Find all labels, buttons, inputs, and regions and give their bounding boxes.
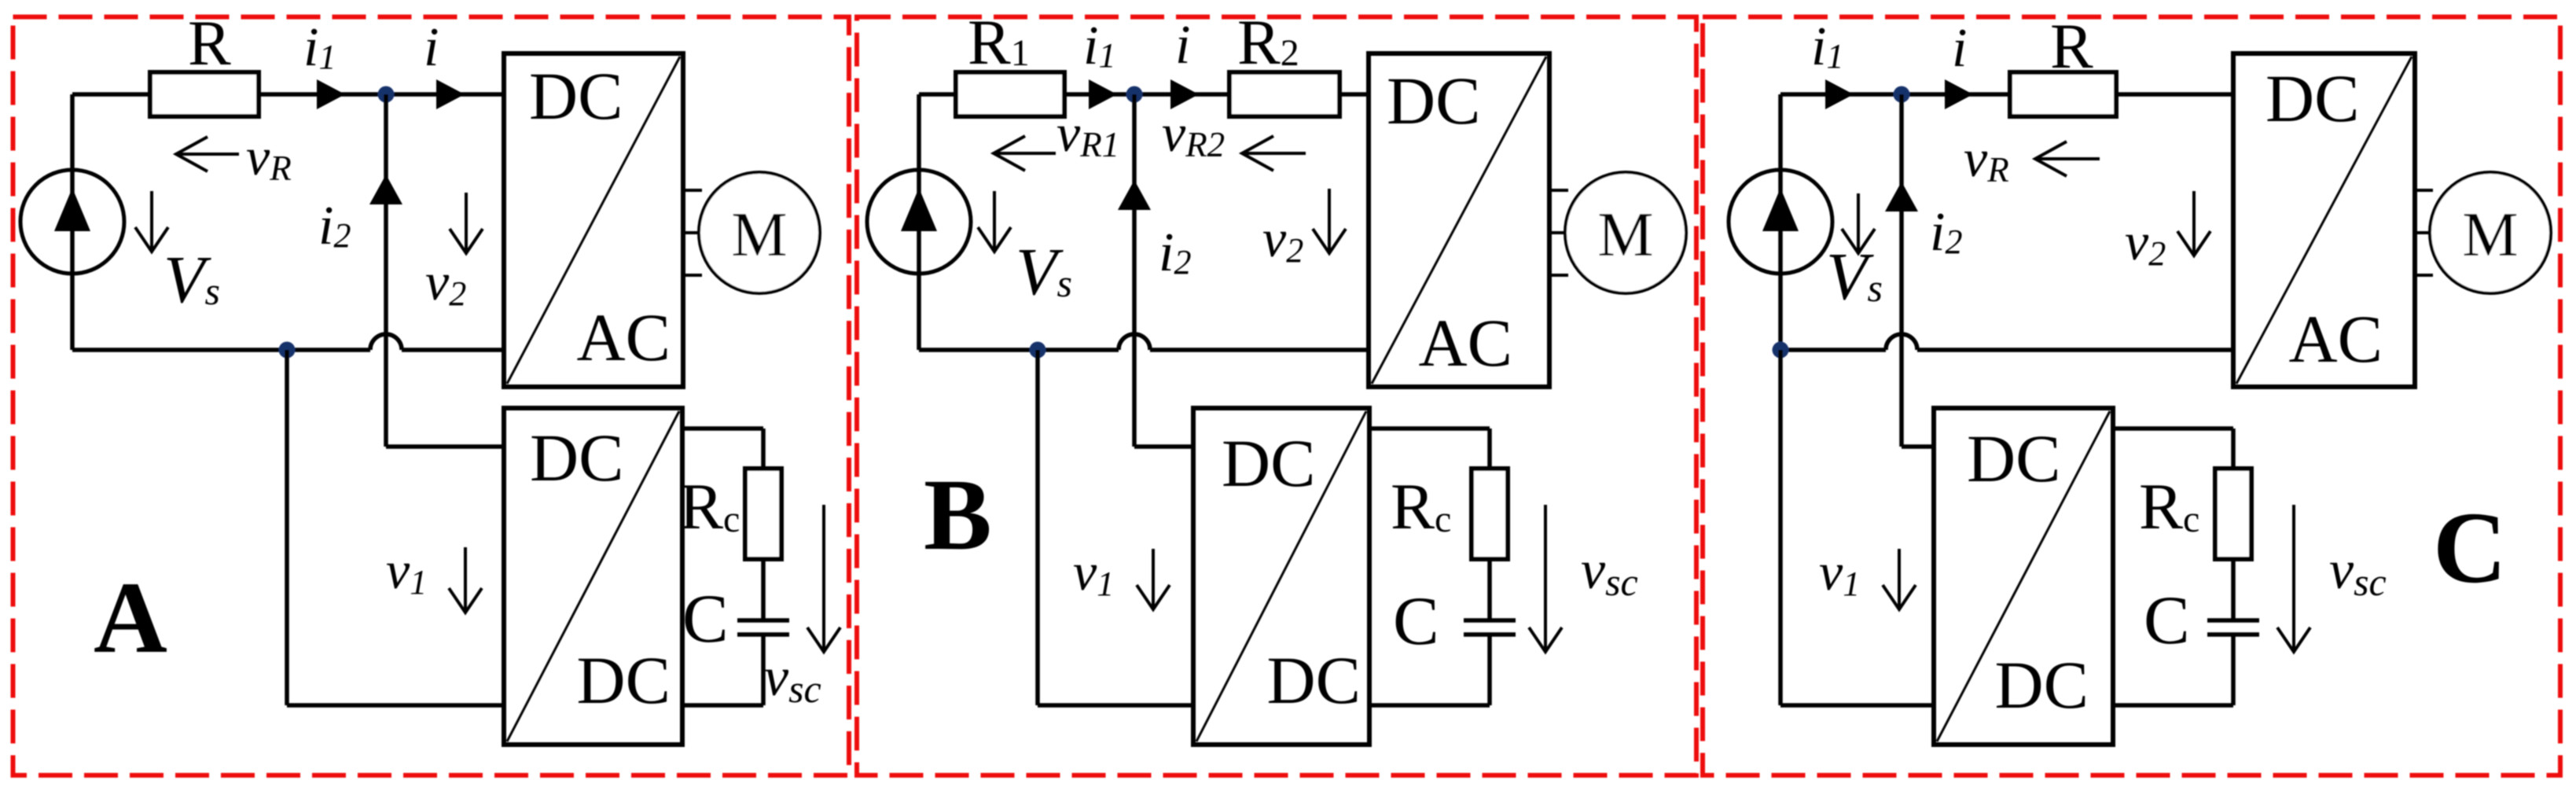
svg-text:vsc: vsc	[764, 647, 821, 711]
svg-text:Vs: Vs	[164, 241, 220, 317]
voltage label v1 (panel B)	[1152, 549, 1155, 609]
svg-text:i2: i2	[1159, 223, 1191, 283]
current arrow i1 (panel C)	[1825, 79, 1854, 109]
motor M (panel C)	[2415, 189, 2433, 192]
svg-text:vR: vR	[246, 127, 292, 188]
source voltage label Vs (panel A)	[150, 191, 153, 252]
wire: link to DC/DC converter (panel B)	[1035, 350, 1040, 705]
voltage label vR2 arrow (panel B)	[1242, 152, 1306, 155]
svg-text:C: C	[2144, 583, 2190, 659]
svg-text:B: B	[924, 458, 992, 572]
capacitor C (panel B)	[1464, 618, 1516, 623]
node junction bottom (panel A)	[279, 342, 296, 359]
node junction top (panel B)	[1126, 86, 1143, 103]
svg-text:M: M	[1597, 201, 1653, 270]
resistor Rc (panel B)	[1472, 469, 1508, 559]
current arrow i1 (panel A)	[317, 79, 345, 109]
svg-text:C: C	[1393, 583, 1439, 660]
resistor Rc (panel A)	[745, 469, 781, 559]
voltage label v2 (panel A)	[465, 193, 468, 253]
resistor R1 (panel B)	[956, 72, 1064, 116]
wire: bottom rail with crossover hop (panel B)	[919, 348, 1119, 352]
svg-text:i1: i1	[1083, 16, 1115, 76]
wire C to bottom (panel C)	[2231, 635, 2236, 705]
svg-text:i: i	[1952, 18, 1967, 79]
svg-text:v2: v2	[1262, 208, 1303, 270]
wire Rc to C (panel C)	[2231, 559, 2236, 620]
svg-text:i2: i2	[318, 196, 351, 256]
svg-text:Rc: Rc	[1391, 470, 1451, 543]
svg-text:DC: DC	[530, 420, 623, 495]
svg-text:vR2: vR2	[1162, 103, 1225, 164]
svg-text:i2: i2	[1930, 202, 1962, 263]
wire: top rail (panel C)	[1780, 92, 2010, 97]
current source Vs (panel C)	[1778, 94, 1783, 350]
resistor Rc (panel C)	[2215, 469, 2251, 559]
svg-text:vR1: vR1	[1056, 103, 1119, 164]
DC/DC converter (panel A)	[504, 408, 682, 745]
wire: i2 branch (panel A)	[384, 94, 388, 447]
svg-text:DC: DC	[1222, 425, 1315, 501]
current arrow i (panel A)	[436, 79, 465, 109]
svg-text:C: C	[682, 581, 729, 657]
svg-text:DC: DC	[1387, 63, 1480, 138]
wire: bottom rail with crossover hop (panel A)	[72, 348, 370, 352]
wire Rc to C (panel B)	[1487, 559, 1492, 620]
svg-text:vsc: vsc	[1581, 540, 1638, 604]
svg-text:AC: AC	[577, 300, 671, 375]
voltage label v2 (panel C)	[2192, 191, 2196, 256]
voltage label v1 (panel A)	[464, 547, 467, 613]
DC/AC converter (panel C)	[2233, 53, 2415, 387]
voltage label vR arrow (panel C)	[2035, 157, 2100, 160]
wire Rc to C (panel A)	[761, 559, 766, 620]
wire: supercap branch (panel C)	[2113, 426, 2233, 431]
current arrow i2 (panel B)	[1118, 180, 1151, 210]
DC/AC converter (panel A)	[504, 53, 683, 387]
wire C to bottom (panel B)	[1487, 635, 1492, 705]
panel A dashed border	[13, 17, 850, 776]
svg-text:i: i	[1175, 15, 1190, 75]
wire C to bottom (panel A)	[761, 635, 766, 705]
svg-text:DC: DC	[577, 642, 671, 718]
voltage label vsc (panel C)	[2292, 505, 2295, 652]
svg-text:C: C	[2433, 491, 2507, 605]
svg-text:Rc: Rc	[2139, 470, 2199, 543]
svg-text:Vs: Vs	[1826, 238, 1883, 314]
current source Vs (panel B)	[917, 94, 921, 350]
current arrow i2 (panel C)	[1885, 182, 1918, 212]
current arrow i (panel C)	[1945, 79, 1973, 109]
wire: supercap branch (panel A)	[682, 426, 763, 431]
svg-text:Vs: Vs	[1016, 234, 1072, 309]
voltage label vsc (panel B)	[1544, 505, 1547, 652]
svg-text:v2: v2	[425, 252, 466, 313]
source voltage label Vs (panel B)	[993, 191, 996, 252]
voltage label v1 (panel C)	[1898, 549, 1901, 609]
svg-text:DC: DC	[2265, 61, 2359, 136]
wire: link to DC/DC converter (panel C)	[1778, 350, 1783, 705]
svg-text:DC: DC	[1267, 642, 1361, 718]
svg-text:R: R	[2050, 10, 2093, 82]
svg-text:DC: DC	[1995, 647, 2089, 723]
svg-text:v1: v1	[386, 540, 427, 602]
wire: i2 branch (panel C)	[1899, 94, 1904, 447]
svg-text:i: i	[424, 17, 439, 78]
capacitor C (panel A)	[737, 618, 789, 623]
svg-text:A: A	[94, 561, 167, 675]
svg-text:v1: v1	[1073, 542, 1114, 603]
current source Vs (panel A)	[70, 94, 75, 350]
voltage label vR arrow (panel A)	[176, 153, 239, 156]
capacitor C (panel C)	[2207, 618, 2259, 623]
svg-text:M: M	[2462, 201, 2518, 270]
voltage label v2 (panel B)	[1328, 189, 1331, 253]
panel C dashed border	[1703, 17, 2560, 776]
DC/DC converter (panel C)	[1934, 408, 2113, 745]
node junction top (panel A)	[378, 86, 395, 103]
svg-text:DC: DC	[529, 58, 623, 134]
node junction bottom (panel B)	[1030, 342, 1046, 359]
svg-text:vR: vR	[1964, 128, 2009, 189]
svg-text:v2: v2	[2125, 212, 2166, 273]
svg-text:v1: v1	[1819, 542, 1860, 603]
svg-text:AC: AC	[1419, 305, 1512, 381]
svg-text:Rc: Rc	[679, 470, 740, 543]
motor M (panel A)	[683, 189, 702, 192]
source voltage label Vs (panel C)	[1857, 193, 1860, 253]
svg-text:AC: AC	[2289, 301, 2383, 377]
resistor R2 (panel B)	[1229, 72, 1339, 116]
wire: i2 branch (panel B)	[1132, 94, 1137, 447]
wire: top rail (panel A)	[72, 92, 150, 97]
wire: supercap branch (panel B)	[1369, 426, 1490, 431]
resistor R (panel C)	[2010, 72, 2116, 116]
motor M (panel B)	[1549, 189, 1568, 192]
svg-text:R: R	[188, 7, 231, 79]
current arrow i2 (panel A)	[369, 175, 402, 204]
svg-text:i1: i1	[1811, 17, 1843, 77]
svg-text:DC: DC	[1967, 421, 2060, 496]
wire: link to DC/DC converter (panel A)	[285, 350, 289, 705]
svg-text:vsc: vsc	[2329, 540, 2387, 604]
current arrow i1 (panel B)	[1089, 79, 1117, 109]
voltage label vR1 arrow (panel B)	[994, 152, 1056, 155]
wire: bottom rail with crossover hop (panel C)	[1780, 348, 1886, 352]
node junction top (panel C)	[1894, 86, 1910, 103]
DC/AC converter (panel B)	[1369, 53, 1549, 387]
current arrow i (panel B)	[1170, 79, 1199, 109]
svg-text:i1: i1	[303, 17, 336, 78]
node junction bottom (panel C)	[1773, 342, 1789, 359]
DC/DC converter (panel B)	[1193, 408, 1369, 745]
wire: top rail (panel B)	[919, 92, 956, 97]
resistor R (panel A)	[150, 72, 259, 116]
panel B dashed border	[857, 17, 1696, 776]
voltage label vsc (panel A)	[822, 505, 825, 652]
svg-text:M: M	[731, 201, 787, 270]
